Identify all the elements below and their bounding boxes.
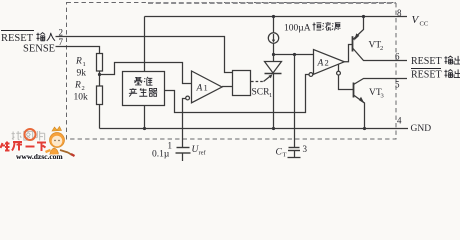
node CT tap [293, 53, 296, 56]
svg-text:100µA: 100µA [284, 24, 311, 34]
svg-text:1: 1 [204, 83, 208, 93]
transistor VT3 (NPN) [353, 83, 355, 98]
ground rail / pin 4 [100, 128, 409, 130]
pin 7 SENSE lead [56, 47, 100, 54]
svg-text:RESET: RESET [411, 70, 442, 81]
svg-text:A: A [317, 59, 324, 69]
svg-text:8: 8 [397, 8, 402, 18]
op-amp A1 [192, 71, 223, 103]
watermark grey text [12, 131, 22, 140]
wire box bottom to ground rail [144, 106, 146, 129]
watermark red text 维库一下 [1, 142, 47, 152]
svg-text:9k: 9k [77, 69, 87, 79]
svg-text:2: 2 [380, 45, 383, 52]
svg-text:ref: ref [199, 150, 207, 157]
node SCR anode [272, 53, 275, 56]
wire: rail drop to reference box top [144, 17, 146, 72]
pin 2 RESET-input lead + wire to SCR box [56, 37, 233, 73]
A1 inverting input bubble [186, 96, 190, 100]
svg-text:6: 6 [395, 52, 400, 62]
svg-text:T: T [283, 152, 287, 159]
wire: internal Vcc top rail + pin 8 lead [145, 16, 408, 18]
svg-text:SCR: SCR [252, 88, 271, 98]
A2 inverted output bubble and wire to VT3 base [338, 64, 340, 71]
dashed gate control line with arrow [251, 81, 264, 83]
A2 inverting input bubble [309, 73, 313, 77]
svg-text:3: 3 [381, 93, 384, 100]
resistor R2 body [97, 86, 103, 105]
current source 100uA [273, 17, 275, 34]
external cap 0.1u on pin 1 (Uref) [177, 147, 190, 149]
svg-text:SENSE: SENSE [23, 44, 55, 55]
svg-text:4: 4 [397, 116, 402, 126]
watermark orange circle icon [25, 129, 36, 140]
svg-text:R: R [75, 57, 82, 67]
wire junction to A1 + input [100, 63, 192, 84]
svg-text:10k: 10k [74, 93, 89, 103]
node R1/R2 junction [98, 73, 101, 76]
svg-text:1: 1 [269, 92, 272, 99]
resistor R1 body [97, 54, 103, 72]
thyristor SCR1 symbol [273, 55, 275, 62]
svg-text:RESET: RESET [1, 33, 34, 44]
svg-text:0.1µ: 0.1µ [152, 150, 170, 160]
svg-text:2: 2 [59, 28, 64, 38]
svg-text:2: 2 [82, 85, 85, 92]
wire R2 bottom to ground rail [99, 105, 101, 129]
svg-text:7: 7 [59, 37, 64, 47]
watermark mascot [46, 127, 75, 157]
svg-text:RESET: RESET [411, 56, 442, 67]
wire pin 3 CT down to external cap [294, 55, 296, 148]
reference generator box [123, 72, 165, 106]
op-amp A2 [314, 50, 345, 75]
svg-text:GND: GND [411, 124, 432, 134]
svg-text:A: A [196, 84, 203, 94]
external cap CT on pin 3 [289, 147, 300, 149]
wire A1 bubble to Uref node and down to pin1 cap [183, 99, 186, 148]
svg-text:2: 2 [325, 58, 329, 68]
svg-text:R: R [74, 81, 81, 91]
svg-text:3: 3 [303, 144, 308, 154]
wire R1 to junction and to R2 [99, 71, 101, 86]
wire node to A2 + input [274, 54, 314, 56]
svg-text:CC: CC [420, 21, 429, 28]
SCR trigger box [233, 71, 251, 96]
border top thick scan dashes [148, 2, 396, 4]
svg-text:C: C [276, 148, 283, 158]
wire box right to Uref node / A2 inverting input [165, 75, 309, 113]
transistor VT2 (PNP) [352, 36, 354, 51]
svg-text:www.dzsc.com: www.dzsc.com [16, 152, 63, 161]
svg-text:1: 1 [83, 61, 86, 68]
svg-text:5: 5 [395, 80, 400, 90]
wire A1 output to SCR box [222, 86, 233, 88]
IC dashed border [67, 3, 397, 140]
A2 output to VT2 base [344, 45, 352, 62]
